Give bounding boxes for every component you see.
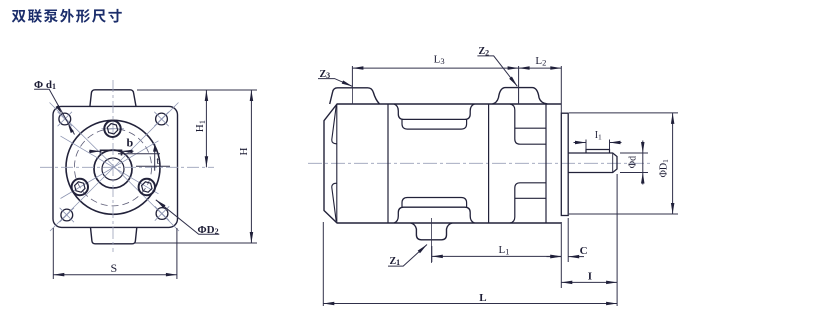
- svg-text:L1: L1: [499, 244, 510, 257]
- dimension S: [53, 228, 177, 279]
- label Φd1 with underline leader through mounting hole: [34, 79, 75, 135]
- dimension L: [323, 222, 617, 306]
- side view: shaft key: [586, 150, 610, 154]
- dimension I1 (key length): [574, 140, 622, 150]
- front view: vertical centerline: [112, 80, 114, 252]
- side view: rear cover bottom chamfer facet: [332, 183, 337, 221]
- dimension H: [134, 90, 257, 243]
- front view: socket head screw lower-left: [72, 179, 88, 195]
- dimension L2: [519, 66, 562, 113]
- front view: center boss circle: [94, 150, 132, 188]
- dimension t (key depth): [118, 144, 170, 171]
- top screw horizontal center tick: [102, 128, 125, 130]
- dimension I: [561, 174, 617, 306]
- Z3 port centerline: [351, 88, 353, 105]
- front view: radial centerline through lower-right screw: [61, 136, 159, 194]
- side view: Z1 port boss: [411, 223, 453, 240]
- front view: top-left mounting hole: [58, 112, 72, 126]
- label ΦD2 with underline leader to pilot circle: [156, 200, 220, 236]
- Z2 port centerline: [518, 84, 520, 104]
- side view: rear body joint line: [387, 104, 389, 223]
- svg-text:Z1: Z1: [390, 256, 401, 267]
- dimension b (key width): [89, 150, 134, 152]
- front view: horizontal centerline: [40, 166, 214, 168]
- side view: bottom groove inner ledge: [402, 198, 467, 208]
- svg-text:Φd: Φd: [628, 156, 639, 168]
- front view: bottom-right mounting hole: [155, 206, 169, 220]
- side view: drive shaft: [568, 153, 617, 173]
- svg-text:ΦD1: ΦD1: [659, 159, 671, 178]
- front view: pilot circle: [66, 120, 160, 214]
- front view: radial centerline through lower-left screw: [61, 141, 159, 199]
- label Z2 with underline leader: [477, 46, 517, 86]
- dimension L3: [352, 66, 518, 104]
- side view: body top edge: [388, 103, 561, 105]
- side view: front cover step profile: [510, 104, 546, 223]
- side view: main centerline: [308, 162, 652, 164]
- dimension ΦD1 (flange diameter): [569, 113, 678, 214]
- front view: bottom-left mounting hole: [60, 208, 74, 222]
- svg-text:H1: H1: [194, 120, 207, 132]
- side view: front body joint line: [488, 104, 490, 223]
- svg-text:b: b: [127, 136, 134, 150]
- side view: rear cover top chamfer facet: [332, 106, 337, 144]
- front view: socket head screw lower-right: [139, 179, 155, 195]
- svg-text:S: S: [111, 261, 118, 275]
- label Z3 with underline leader: [318, 69, 353, 87]
- label Z1 with underline leader: [388, 245, 427, 268]
- side view: bottom groove between stages: [394, 207, 475, 223]
- front view: socket head screw top: [104, 121, 120, 137]
- front view: bottom tab boss: [91, 227, 137, 243]
- dimension L1: [432, 222, 562, 288]
- svg-text:L3: L3: [434, 54, 445, 67]
- dimension Φd (shaft diameter): [620, 141, 648, 185]
- front view: top-right mounting hole: [154, 112, 168, 126]
- side view: top groove inner ledge: [402, 119, 467, 129]
- side view: top groove between stages: [394, 104, 475, 119]
- side view: mounting flange plate: [561, 113, 568, 215]
- svg-text:C: C: [580, 245, 588, 257]
- svg-text:t: t: [157, 156, 160, 167]
- svg-text:H: H: [238, 148, 250, 156]
- front view: square mounting flange: [53, 106, 178, 227]
- svg-text:I: I: [588, 271, 592, 283]
- Z1 port centerline: [431, 218, 433, 263]
- side view: Z3 port boss: [330, 88, 380, 104]
- side view: rear cover outline: [324, 104, 388, 223]
- front view: key flat on shaft: [101, 150, 122, 155]
- svg-text:L2: L2: [535, 55, 546, 68]
- front view: diagonal centerline TR-BL: [50, 103, 179, 232]
- front view: shaft circle: [102, 158, 124, 180]
- front view: top tab boss: [90, 90, 136, 107]
- side view: Z2 port boss: [492, 88, 547, 104]
- dimension H1: [137, 90, 257, 167]
- svg-text:I1: I1: [595, 130, 602, 142]
- front view: diagonal centerline TL-BR: [50, 103, 180, 232]
- dimension C: [547, 218, 585, 262]
- side view: body bottom edge: [388, 222, 561, 224]
- svg-text:L: L: [479, 292, 486, 304]
- side view: rear cover facet edge: [336, 104, 338, 223]
- title: 双联泵外形尺寸 (dual pump external dimensions): [12, 9, 122, 23]
- front view: bolt circle (dashed): [74, 129, 151, 206]
